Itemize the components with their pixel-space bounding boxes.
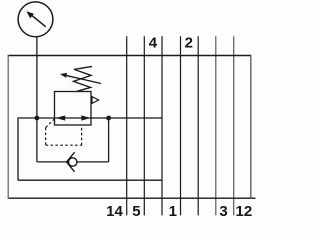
svg-text:4: 4	[149, 34, 158, 51]
pressure gauge body	[18, 2, 53, 37]
gauge stem wire	[36, 37, 38, 118]
relief vent triangle	[92, 97, 99, 104]
channel line 1	[161, 36, 163, 215]
check valve seat	[67, 152, 75, 172]
channel line 12 (gray)	[233, 36, 235, 215]
plate outline top border	[8, 55, 251, 57]
adjustment spring	[74, 66, 93, 91]
regulator body box	[55, 92, 92, 126]
supply bottom wire	[18, 179, 162, 181]
channel line 2	[180, 36, 182, 215]
svg-text:5: 5	[132, 203, 140, 220]
node left (gauge tee)	[35, 116, 40, 121]
channel line (gray)	[215, 36, 217, 215]
svg-text:3: 3	[219, 203, 227, 220]
svg-text:12: 12	[236, 203, 253, 220]
pressure gauge needle arrowhead	[26, 11, 34, 18]
pilot line left vertical (dashed)	[45, 128, 47, 146]
plate outline right edge	[250, 55, 252, 198]
main flow line	[18, 117, 162, 119]
channel line 14	[126, 36, 128, 215]
pilot line bottom (dashed)	[46, 144, 82, 146]
bypass branch bottom wire	[37, 161, 109, 163]
pilot line diagonal (dashed)	[46, 119, 55, 128]
check valve ball	[69, 158, 77, 166]
svg-text:14: 14	[106, 203, 123, 220]
adjustability arrow shaft	[65, 75, 101, 83]
flow arrowhead left	[56, 115, 65, 120]
channel line 3	[197, 36, 199, 215]
bypass branch left drop	[36, 118, 38, 162]
pilot line right vertical (dashed)	[81, 125, 83, 145]
channel line 4/5	[143, 36, 145, 215]
node right (bypass tee)	[106, 116, 111, 121]
pressure gauge needle	[32, 15, 46, 27]
bypass branch right riser	[108, 118, 110, 162]
plate outline left edge	[7, 55, 9, 199]
svg-text:1: 1	[169, 203, 177, 220]
flow arrowhead right	[81, 115, 90, 120]
adjustability arrowhead	[60, 73, 67, 78]
plate outline bottom border	[8, 197, 256, 199]
svg-text:2: 2	[185, 34, 193, 51]
supply corner drop wire	[17, 117, 19, 180]
